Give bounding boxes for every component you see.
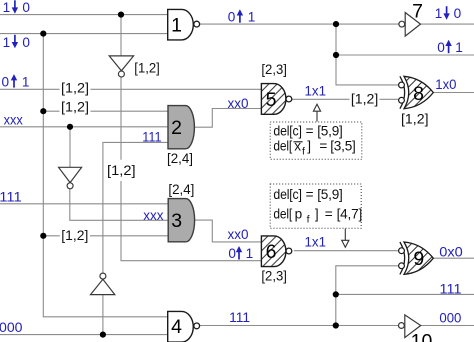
svg-text:0: 0: [22, 35, 30, 50]
svg-text:111: 111: [0, 189, 22, 204]
wire gate10 output: [421, 325, 474, 327]
wire row2 input b: [0, 33, 168, 35]
svg-text:1: 1: [171, 15, 182, 37]
AND gate 3: [168, 199, 194, 242]
wire row5 xxx to gate2: [0, 126, 168, 128]
NAND gate 6 hatched: [261, 236, 291, 267]
junction 000 row: [100, 332, 106, 338]
svg-text:0: 0: [454, 6, 462, 21]
wire vertical inverter3 output up to gate2 pin3: [103, 142, 168, 273]
inverter INV3 pointing up: [91, 273, 115, 295]
junction y294 branch: [333, 291, 339, 297]
svg-text:111: 111: [229, 310, 250, 325]
svg-text:1: 1: [22, 74, 30, 89]
svg-text:1x1: 1x1: [305, 84, 327, 99]
svg-text:0: 0: [228, 9, 236, 24]
wire gate7 output: [421, 23, 474, 25]
label gate1 out 0u1: [228, 9, 256, 24]
wire gate6 output to gate9 pin1: [294, 250, 398, 252]
junction row4: [40, 108, 46, 114]
svg-text:1: 1: [3, 35, 11, 50]
svg-text:5: 5: [266, 89, 277, 111]
svg-text:4: 4: [171, 316, 182, 338]
svg-text:[1,2]: [1,2]: [61, 100, 89, 115]
wire branch y55 to right edge: [336, 54, 474, 56]
inverter INV2 on xxx branch: [59, 167, 82, 189]
label input b 1d0: [3, 35, 31, 50]
svg-text:9: 9: [413, 248, 424, 270]
svg-text:[1,2]: [1,2]: [61, 228, 88, 243]
svg-text:1: 1: [435, 6, 443, 21]
wire row3 input c to gate5: [0, 88, 261, 90]
svg-text:[2,4]: [2,4]: [168, 182, 194, 197]
wire vertical from row1 junction through inverter1: [121, 15, 261, 261]
svg-text:[2,3]: [2,3]: [261, 269, 287, 284]
svg-text:0: 0: [437, 40, 445, 55]
wire row1 input a: [0, 14, 168, 16]
svg-text:[1,2]: [1,2]: [351, 92, 379, 107]
wire gate2 output to gate5 pin2: [194, 109, 261, 128]
svg-text:0x0: 0x0: [439, 245, 463, 260]
XOR gate 9 hatched inverted inputs: [399, 242, 434, 274]
svg-text:[1,2]: [1,2]: [107, 163, 136, 178]
wire row7 000 bottom: [0, 334, 168, 336]
label input a 1d0: [3, 0, 31, 15]
svg-text:del[c]=[5,9]: del[c]=[5,9]: [273, 123, 342, 138]
svg-text:111: 111: [142, 129, 161, 144]
svg-text:2: 2: [171, 117, 182, 139]
label gate6 pin2 0u1: [228, 246, 253, 261]
wire gate3 output to gate6 pin1: [194, 220, 261, 242]
svg-text:xx0: xx0: [228, 96, 249, 111]
wire branch to gate3 pin3: [43, 235, 168, 237]
svg-text:7: 7: [412, 1, 423, 23]
svg-text:1: 1: [455, 40, 463, 55]
junction gate3 pin3 branch: [40, 233, 46, 239]
svg-text:000: 000: [439, 311, 461, 326]
wire gate9 pin2 branch: [336, 266, 398, 326]
svg-text:0: 0: [228, 246, 236, 261]
junction xxx row: [67, 124, 73, 130]
svg-text:xx0: xx0: [228, 227, 249, 242]
svg-text:[1,2]: [1,2]: [134, 60, 160, 75]
NAND gate 4: [168, 311, 200, 342]
svg-text:[2,3]: [2,3]: [261, 62, 287, 77]
svg-text:del[c]=[5,9]: del[c]=[5,9]: [273, 187, 342, 202]
XOR gate 8 hatched inverted inputs: [399, 76, 434, 108]
junction gate1 output: [333, 21, 339, 27]
svg-text:1: 1: [3, 0, 11, 15]
svg-text:10: 10: [411, 331, 433, 342]
inverter gate 10: [399, 315, 433, 342]
wire gate5 output to gate8 pin2: [292, 98, 399, 100]
junction y55 branch: [333, 52, 339, 58]
svg-text:3: 3: [171, 210, 182, 232]
wire branch y294 to right edge: [336, 293, 474, 295]
wire gate4 output to gate10: [200, 325, 399, 327]
svg-text:[1,2]: [1,2]: [401, 111, 429, 126]
svg-text:0: 0: [22, 0, 30, 15]
wire vertical branch at x336 to gate8 pin1: [336, 24, 399, 85]
annotation arrow 2 down: [342, 229, 349, 248]
wire inverter3 input from 000 net: [102, 295, 104, 335]
junction row1: [118, 12, 124, 18]
svg-text:8: 8: [413, 83, 424, 105]
svg-text:111: 111: [440, 281, 462, 296]
inverter INV1 below gate1: [109, 56, 133, 77]
annotation arrow 1 up: [313, 104, 320, 121]
svg-text:1: 1: [246, 246, 254, 261]
svg-text:000: 000: [0, 320, 23, 335]
svg-text:0: 0: [2, 74, 10, 89]
label net y55 0u1: [437, 40, 463, 55]
label input c 0u1: [2, 74, 30, 89]
svg-text:6: 6: [266, 241, 277, 263]
svg-text:xxx: xxx: [143, 208, 164, 223]
wire row6 111 to gate3: [0, 203, 168, 205]
wire vertical from xxx junction through inverter2 to gate3 pin2: [70, 127, 168, 221]
wire gate1 output to gate7: [200, 23, 399, 25]
svg-text:1: 1: [248, 9, 256, 24]
wire gate8 output: [433, 92, 474, 94]
svg-text:xxx: xxx: [4, 112, 23, 127]
annotation box 1: [270, 122, 362, 159]
svg-text:1x0: 1x0: [435, 77, 457, 92]
AND gate 2: [168, 106, 194, 149]
NAND gate 5 hatched: [261, 84, 291, 115]
junction gate4 output: [333, 322, 339, 328]
label gate7 out 1d0: [435, 6, 462, 21]
buffer gate 7 inverted input: [399, 1, 423, 37]
svg-text:[2,4]: [2,4]: [167, 151, 193, 166]
svg-text:1x1: 1x1: [305, 235, 327, 250]
NAND gate 1: [168, 9, 200, 40]
annotation box 2: [270, 184, 362, 228]
wire row4 branch to gate2: [43, 110, 168, 112]
junction row2: [40, 30, 46, 36]
wire gate9 output: [433, 257, 474, 259]
wire vertical from b junction down to gate4: [43, 34, 167, 317]
svg-text:[1,2]: [1,2]: [61, 80, 89, 95]
